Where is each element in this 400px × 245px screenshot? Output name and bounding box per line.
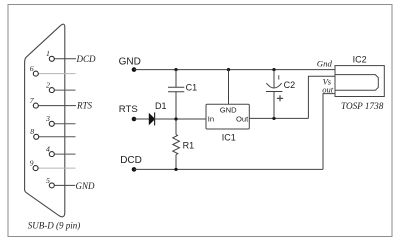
node DCD terminal dot bbox=[132, 167, 137, 172]
pin 1 bbox=[49, 56, 54, 61]
svg-text:2: 2 bbox=[46, 80, 50, 89]
wire IC2 out to DCD rail bbox=[323, 94, 335, 170]
IC1 pin GND riser wire bbox=[228, 70, 230, 105]
capacitor C2 (polarized) bbox=[266, 70, 282, 119]
svg-text:8: 8 bbox=[30, 127, 34, 136]
pin 8 stub wire bbox=[38, 136, 75, 138]
svg-text:TOSP 1738: TOSP 1738 bbox=[341, 101, 384, 111]
pin 3 stub wire bbox=[54, 123, 76, 125]
regulator IC1 box bbox=[206, 104, 249, 129]
pin 5 bbox=[49, 183, 54, 188]
svg-text:IC2: IC2 bbox=[353, 55, 367, 65]
svg-text:1: 1 bbox=[46, 49, 50, 58]
pin 7 stub wire bbox=[38, 105, 76, 107]
svg-text:SUB-D (9 pin): SUB-D (9 pin) bbox=[28, 220, 81, 230]
node RTS terminal dot bbox=[132, 117, 137, 122]
wire GND rail bbox=[134, 69, 335, 71]
svg-text:RTS: RTS bbox=[119, 104, 138, 115]
wire R1 to DCD rail bbox=[175, 155, 177, 170]
wire RTS to diode bbox=[134, 118, 149, 120]
IR receiver IC2 outer box bbox=[335, 66, 384, 97]
capacitor C1 bbox=[168, 70, 184, 135]
junction RTS/C1/R1 node bbox=[174, 117, 177, 120]
resistor R1 bbox=[173, 134, 180, 154]
C2 polarity tick bbox=[278, 75, 280, 79]
node GND terminal dot bbox=[132, 67, 137, 72]
junction IC1-GND riser bbox=[227, 68, 230, 71]
pin 5 stub wire bbox=[54, 184, 75, 186]
svg-text:6: 6 bbox=[30, 64, 34, 73]
pin 2 stub wire bbox=[54, 89, 76, 91]
pin 9 bbox=[33, 166, 38, 171]
pin 4 stub wire bbox=[54, 153, 76, 155]
diode D1 bbox=[149, 114, 154, 125]
svg-text:R1: R1 bbox=[183, 141, 195, 151]
pin 2 bbox=[49, 88, 54, 93]
svg-text:5: 5 bbox=[46, 176, 50, 185]
wire IC1 Out to Vs riser bbox=[249, 117, 308, 119]
svg-text:GND: GND bbox=[76, 181, 96, 191]
svg-text:4: 4 bbox=[46, 144, 50, 153]
pin 4 bbox=[49, 152, 54, 157]
svg-text:C2: C2 bbox=[284, 80, 296, 90]
svg-text:9: 9 bbox=[30, 158, 34, 167]
svg-text:3: 3 bbox=[45, 114, 50, 123]
pin 8 bbox=[34, 134, 39, 139]
pin 7 bbox=[33, 103, 38, 108]
wire DCD rail bbox=[134, 168, 323, 170]
svg-text:Gnd: Gnd bbox=[317, 59, 333, 69]
wire diode to IC1 In bbox=[155, 118, 206, 120]
pin 6 bbox=[33, 71, 38, 76]
IC2 inner lens shape bbox=[335, 75, 378, 91]
pin 1 stub wire bbox=[54, 58, 76, 60]
pin 3 bbox=[49, 121, 54, 126]
junction R1/DCD bbox=[174, 168, 177, 171]
svg-text:DCD: DCD bbox=[76, 54, 97, 64]
junction C2/Out bbox=[272, 117, 275, 120]
pin 6 stub wire bbox=[38, 73, 76, 75]
svg-text:In: In bbox=[208, 114, 214, 123]
svg-text:GND: GND bbox=[220, 106, 237, 115]
svg-text:D1: D1 bbox=[155, 101, 167, 111]
svg-text:GND: GND bbox=[119, 57, 141, 68]
svg-text:IC1: IC1 bbox=[222, 132, 236, 142]
wire Vs riser bbox=[308, 76, 335, 118]
junction C1/GND bbox=[174, 68, 177, 71]
svg-text:C1: C1 bbox=[186, 82, 198, 92]
svg-text:DCD: DCD bbox=[120, 155, 142, 166]
junction C2/GND bbox=[272, 68, 275, 71]
svg-text:Out: Out bbox=[236, 114, 249, 123]
connector J1 SUB-D 9pin shell bbox=[25, 24, 65, 217]
C2 plus sign bbox=[277, 95, 283, 101]
pin 9 stub wire bbox=[38, 167, 76, 169]
svg-text:RTS: RTS bbox=[76, 101, 93, 111]
